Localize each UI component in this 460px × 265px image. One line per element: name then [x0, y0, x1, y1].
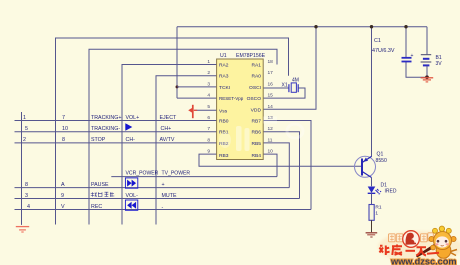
svg-text:U1: U1	[220, 53, 227, 59]
svg-text:16: 16	[268, 81, 274, 87]
svg-text:7: 7	[62, 115, 65, 121]
svg-text:C1: C1	[374, 38, 381, 44]
wire pin 12 hook	[263, 132, 299, 199]
svg-text:CH-: CH-	[126, 137, 136, 143]
svg-text:EM78P156E: EM78P156E	[236, 53, 266, 59]
wire column5 from pin 2	[156, 76, 217, 225]
wire VCR_POWER row	[111, 176, 277, 178]
svg-text:REC: REC	[91, 204, 102, 210]
icon play triangle	[125, 123, 132, 131]
wire matrix row2 to pin 7	[15, 131, 217, 133]
svg-text:47U/6.3V: 47U/6.3V	[372, 48, 395, 54]
ground red below battery	[421, 78, 434, 82]
svg-text:RB6: RB6	[251, 130, 261, 136]
battery B1	[421, 55, 432, 66]
svg-text:2: 2	[23, 137, 26, 143]
ground red below column1	[16, 227, 29, 232]
svg-text:RB3: RB3	[219, 153, 229, 159]
logo mascot pen hand	[431, 245, 436, 250]
svg-text:1: 1	[23, 115, 26, 121]
wire pin 4 stub	[177, 97, 217, 99]
svg-text:MUTE: MUTE	[162, 193, 177, 199]
svg-text:STOP: STOP	[91, 137, 106, 143]
node label chinese key	[91, 192, 115, 197]
wire column1	[21, 112, 23, 225]
logo dash tail	[427, 253, 439, 254]
logo mascot monkey	[416, 226, 457, 258]
power port Vss red	[188, 105, 197, 118]
wire REC row	[15, 209, 312, 211]
svg-text:4M: 4M	[292, 77, 299, 83]
crystal X1	[289, 83, 298, 92]
wire pin 14 VDD to rail	[263, 27, 316, 110]
svg-text:3: 3	[207, 81, 210, 87]
svg-text:VOL-: VOL-	[126, 193, 139, 199]
svg-text:5: 5	[207, 104, 210, 110]
icon fast-forward	[125, 178, 137, 188]
svg-text:RB4: RB4	[251, 153, 261, 159]
wire Q1 collector to LED	[371, 178, 373, 187]
svg-text:9: 9	[61, 193, 64, 199]
wire rail B from column2 to pin 17	[56, 38, 289, 225]
svg-text:9: 9	[207, 149, 210, 155]
wire matrix row3 to pin 8	[15, 142, 217, 144]
svg-text:+: +	[411, 53, 414, 59]
transistor Q1 8550	[355, 156, 376, 177]
svg-text:8550: 8550	[376, 158, 387, 164]
svg-text:2: 2	[207, 70, 210, 76]
wire pin 9 to transistor base	[199, 154, 362, 166]
svg-text:18: 18	[268, 59, 274, 65]
svg-text:PAUSE: PAUSE	[91, 182, 109, 188]
wire pin 5 stub	[194, 109, 217, 111]
wire resistor to ground	[371, 220, 373, 232]
svg-text:RA1: RA1	[251, 63, 261, 69]
svg-text:-: -	[162, 204, 164, 210]
svg-text:V: V	[61, 204, 65, 210]
svg-text:7: 7	[207, 126, 210, 132]
svg-text:8: 8	[207, 137, 210, 143]
svg-text:VOL+: VOL+	[126, 115, 140, 121]
diode D1 IRED	[368, 187, 382, 195]
svg-text:1: 1	[375, 211, 378, 217]
svg-text:RB5: RB5	[251, 141, 261, 147]
svg-text:17: 17	[268, 70, 274, 76]
wire column4 from pin 1	[122, 65, 217, 225]
wire matrix row1 to pin 6	[15, 120, 217, 122]
svg-text:8: 8	[25, 182, 28, 188]
wire pin 11 hook	[263, 143, 289, 188]
resistor R1	[369, 205, 374, 221]
svg-text:VCR_POWER: VCR_POWER	[126, 171, 159, 177]
svg-text:4: 4	[27, 204, 30, 210]
svg-text:IRED: IRED	[385, 189, 397, 195]
wire pin 13 hook	[263, 121, 311, 210]
watermark white blobs	[236, 117, 277, 152]
wire emitter of Q1 to rail	[371, 27, 373, 157]
wire LED to resistor	[371, 193, 373, 204]
wire MUTE row	[15, 198, 300, 200]
logo red stamp	[403, 231, 420, 248]
svg-text:R1: R1	[375, 205, 381, 211]
svg-text:A: A	[61, 182, 65, 188]
capacitor C1	[402, 53, 414, 62]
svg-text:3V: 3V	[436, 61, 443, 67]
logo dzsc watermark bottom right	[378, 226, 460, 265]
wire pin 10 to VCR_POWER row	[263, 154, 277, 177]
svg-text:X1: X1	[282, 83, 288, 89]
svg-text:RB7: RB7	[251, 119, 261, 125]
svg-text:10: 10	[268, 149, 274, 155]
svg-text:RB0: RB0	[219, 119, 229, 125]
svg-text:11: 11	[268, 137, 273, 143]
node junction rail x406	[404, 25, 407, 28]
svg-text:RA0: RA0	[251, 74, 261, 80]
wire rail C from column3 to pin 18	[89, 49, 277, 224]
svg-text:OSCO: OSCO	[247, 96, 262, 102]
svg-text:RESET-Vpp: RESET-Vpp	[219, 96, 244, 101]
svg-text:1: 1	[207, 59, 210, 65]
wire battery bottom lead	[426, 66, 428, 78]
svg-text:CH+: CH+	[161, 126, 172, 132]
svg-text:6: 6	[207, 115, 210, 121]
icon rewind	[125, 200, 137, 210]
svg-text:RA3: RA3	[219, 74, 229, 80]
svg-text:10: 10	[62, 126, 68, 132]
logo red text weiku yixia	[380, 245, 427, 256]
svg-text:15: 15	[268, 93, 274, 99]
node junction rail x371.5	[370, 25, 373, 28]
svg-text:8: 8	[62, 137, 65, 143]
wire VDD top rail	[177, 26, 427, 28]
svg-text:RA2: RA2	[219, 63, 229, 69]
logo top orange outline glyphs	[389, 233, 434, 242]
svg-text:VDD: VDD	[251, 107, 262, 113]
node junction rail x316	[314, 25, 317, 28]
svg-text:Vss: Vss	[219, 108, 228, 114]
wire battery top lead	[426, 27, 428, 55]
svg-text:OSCI: OSCI	[249, 85, 261, 91]
svg-text:5: 5	[25, 126, 28, 132]
wire pin 3 stub	[177, 86, 217, 88]
wire PAUSE row	[15, 187, 290, 189]
svg-text:+: +	[162, 182, 165, 188]
wire C1 branch	[406, 27, 427, 78]
wire crystal to pin 15	[263, 88, 305, 98]
svg-text:TRACKING+: TRACKING+	[91, 115, 121, 121]
wire pin 16 to crystal	[263, 87, 289, 89]
svg-text:EJECT: EJECT	[160, 115, 178, 121]
svg-text:4: 4	[207, 93, 210, 99]
svg-text:Q1: Q1	[377, 152, 384, 158]
svg-text:TV_POWER: TV_POWER	[162, 171, 191, 177]
svg-text:TCKI: TCKI	[219, 85, 230, 91]
wire vertical from top rail to pin 4	[176, 27, 178, 98]
svg-text:AV/TV: AV/TV	[160, 137, 175, 143]
svg-text:www.dzsc.com: www.dzsc.com	[390, 256, 457, 265]
svg-text:TRACKING-: TRACKING-	[91, 126, 120, 132]
node junction battery ground	[425, 75, 429, 79]
node junction pin3 rail	[176, 85, 179, 88]
op-amp U1 EM78P156E IC body	[217, 59, 264, 160]
svg-text:14: 14	[268, 104, 274, 110]
svg-text:3: 3	[25, 193, 28, 199]
svg-text:12: 12	[268, 126, 274, 132]
ground below resistor	[366, 233, 378, 237]
